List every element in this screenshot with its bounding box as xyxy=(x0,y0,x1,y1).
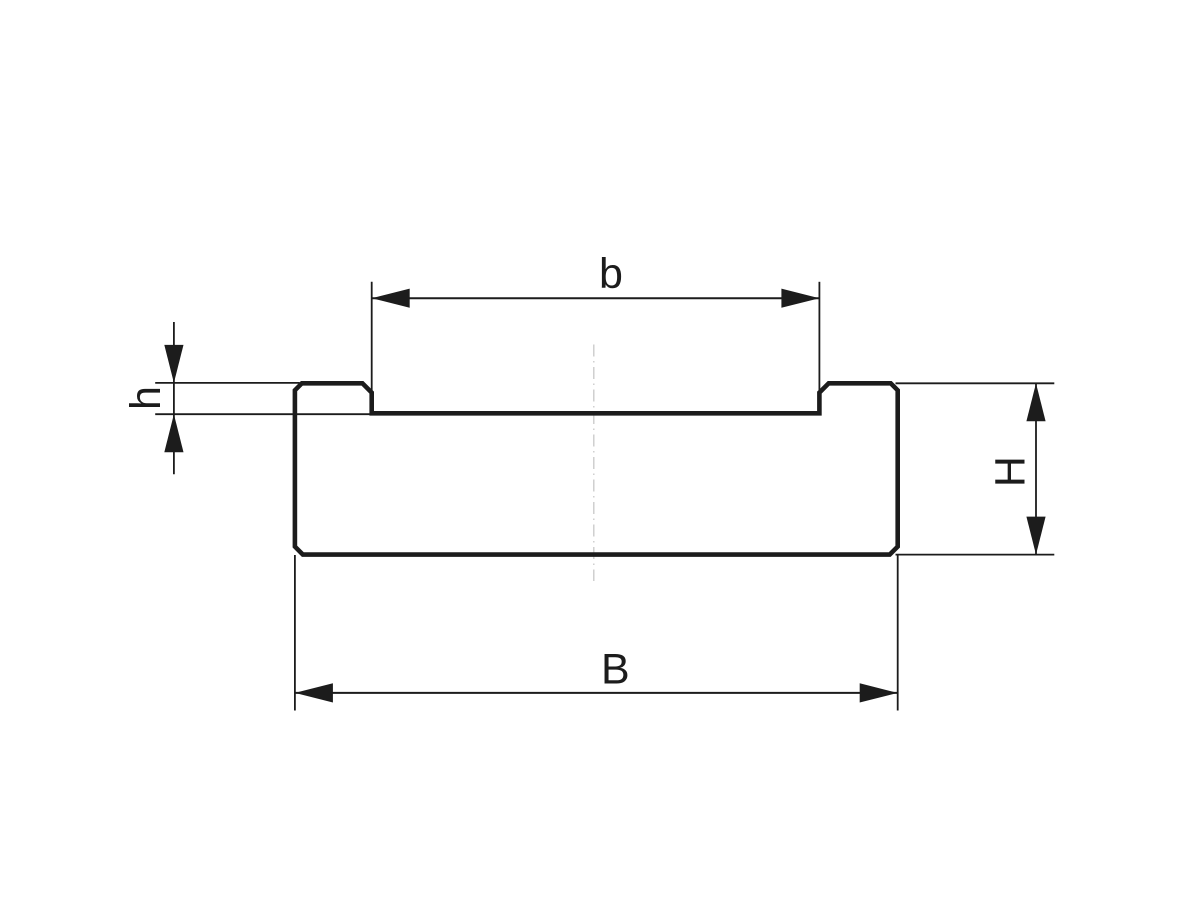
dimension h: upper arrowhead (points down) xyxy=(164,345,183,383)
dimension h: lower extension line xyxy=(155,413,372,415)
dimension H: lower arrowhead (points down) xyxy=(1026,517,1045,555)
centerline (vertical dash-dot axis) xyxy=(593,345,595,582)
dimension B: right extension line xyxy=(897,555,899,711)
dimension B: left arrowhead xyxy=(295,683,333,702)
profile outline (channel cross-section, thick) xyxy=(295,383,898,554)
dimension H: lower extension line xyxy=(896,554,1055,556)
dimension B: dimension line xyxy=(295,692,898,694)
dimension h: lower arrowhead (points up) xyxy=(164,414,183,452)
dimension B: left extension line xyxy=(294,555,296,711)
dimension b: dimension line xyxy=(372,297,820,299)
dimension h: upper extension line xyxy=(155,382,299,384)
dimension B: right arrowhead xyxy=(860,683,898,702)
dimension b: left extension line xyxy=(371,282,373,393)
dimension h: dimension line xyxy=(173,322,175,474)
svg-text:b: b xyxy=(599,250,623,298)
svg-text:H: H xyxy=(986,456,1034,487)
dimension H: dimension line xyxy=(1035,383,1037,554)
dimension b: left arrowhead xyxy=(372,289,410,308)
svg-text:h: h xyxy=(122,386,170,410)
svg-text:B: B xyxy=(601,646,630,694)
dimension b: right arrowhead xyxy=(781,289,819,308)
dimension H: upper arrowhead (points up) xyxy=(1026,383,1045,421)
dimension H: upper extension line xyxy=(896,382,1055,384)
dimension b: right extension line xyxy=(818,282,820,393)
